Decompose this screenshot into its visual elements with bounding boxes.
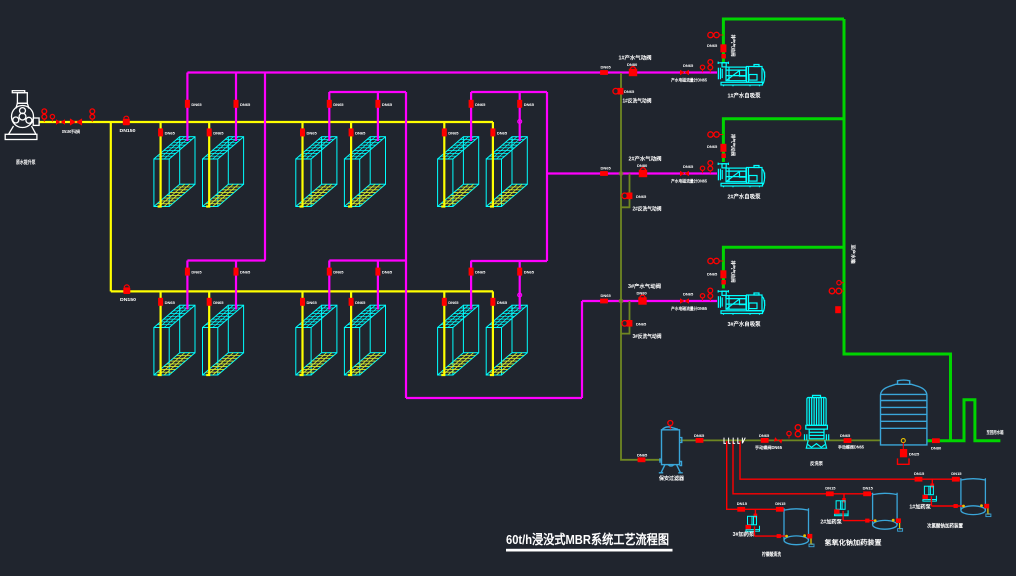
svg-text:产水电磁流量计DN65: 产水电磁流量计DN65 <box>671 77 708 84</box>
svg-text:DN65: DN65 <box>707 144 718 149</box>
valve on row1 yellow main <box>123 119 130 126</box>
membrane module M2 <box>203 137 244 207</box>
wire: magenta drop module 6 row2 <box>519 261 521 310</box>
valve on yellow drop 1 row2 <box>158 298 163 306</box>
wire: magenta header H2 group2 <box>329 91 406 93</box>
valve on green main <box>835 306 841 313</box>
membrane module M3 <box>296 137 337 207</box>
membrane module M11 <box>438 305 479 375</box>
backwash valve 3#反洗气动阀 <box>622 320 633 327</box>
wire: red dosing line to system3 <box>727 441 784 509</box>
svg-text:DN65: DN65 <box>191 102 202 107</box>
dosing system1 <box>922 478 991 516</box>
svg-text:DN65: DN65 <box>355 300 366 305</box>
valve on magenta drop 2 row2 <box>234 268 239 276</box>
wire: magenta pump2 suction line <box>547 172 717 174</box>
wire: yellow drop module 5 row2 <box>441 291 444 375</box>
wire: green tank outlet with seal loop <box>927 400 1000 441</box>
svg-text:DN15: DN15 <box>863 486 874 491</box>
svg-text:DN65: DN65 <box>191 270 202 275</box>
membrane module M5 <box>438 137 479 207</box>
valve on green riser pump1 <box>720 44 726 52</box>
valve on magenta drop 6 row2 <box>517 268 522 276</box>
gauge before pump1 <box>700 65 704 72</box>
valve on yellow drop 3 row1 <box>300 128 305 136</box>
svg-text:DN65: DN65 <box>636 322 647 327</box>
svg-text:DN65: DN65 <box>759 433 770 438</box>
wire: magenta drop module 3 row2 <box>328 261 330 310</box>
node: olive junction pump2 <box>619 172 623 176</box>
svg-text:DN65: DN65 <box>165 300 176 305</box>
svg-text:DN65: DN65 <box>448 300 459 305</box>
svg-text:DN65: DN65 <box>213 300 224 305</box>
gauge at pump outlet <box>50 114 54 121</box>
node: magenta hop module6 row1 <box>518 120 522 124</box>
butterfly valve pump1 line <box>600 70 608 75</box>
svg-text:DN65: DN65 <box>683 164 694 169</box>
wire: magenta drop module 2 row2 <box>235 261 237 310</box>
svg-text:DN65: DN65 <box>307 300 318 305</box>
main valve DN150 <box>70 118 82 125</box>
svg-text:排气气动阀: 排气气动阀 <box>730 134 737 157</box>
valve on dosing line <box>776 507 784 512</box>
valve on magenta drop 1 row2 <box>185 268 190 276</box>
svg-text:DN15: DN15 <box>825 486 836 491</box>
wire: magenta drop module 6 row1 <box>519 92 521 141</box>
gauge pair x92 <box>90 109 95 122</box>
svg-text:2#产水气动阀: 2#产水气动阀 <box>629 156 662 163</box>
wire: red dosing line to system2 <box>733 441 873 494</box>
valve on magenta drop 5 row1 <box>469 100 474 108</box>
gauge pair before pump1 <box>708 60 713 73</box>
svg-text:1#加药泵: 1#加药泵 <box>909 504 932 511</box>
svg-text:手动蝶阀DN65: 手动蝶阀DN65 <box>755 444 783 451</box>
wire: magenta pump3 suction line <box>582 300 717 302</box>
tank drain fitting <box>901 439 905 443</box>
svg-text:DN15: DN15 <box>737 501 748 506</box>
wire: magenta drop module 4 row2 <box>377 261 379 310</box>
gauge pair at pump outlet <box>42 109 47 122</box>
wire: yellow drop module 2 row1 <box>206 122 209 207</box>
svg-text:DN65: DN65 <box>707 272 718 277</box>
wire: yellow drop module 4 row2 <box>348 291 351 375</box>
valve on magenta drop 4 row1 <box>375 100 380 108</box>
valve on magenta drop 3 row2 <box>327 268 332 276</box>
node: olive junction pump3 <box>619 299 623 303</box>
valve on yellow drop 5 row1 <box>442 128 447 136</box>
wire: magenta drop module 2 row1 <box>235 73 237 142</box>
valve on magenta drop 4 row2 <box>375 268 380 276</box>
butterfly valve pump3 line <box>600 299 608 304</box>
pump 2#产水自吸泵 <box>718 163 764 188</box>
membrane module M4 <box>344 137 385 207</box>
valve on dosing line <box>826 491 834 496</box>
svg-text:DN65: DN65 <box>601 64 612 69</box>
wire: yellow air main row2 <box>111 290 493 292</box>
svg-text:DN65: DN65 <box>240 270 251 275</box>
svg-text:手动蝶阀DN65: 手动蝶阀DN65 <box>838 444 865 451</box>
svg-text:反洗泵: 反洗泵 <box>810 460 823 467</box>
valve after backwash pump <box>844 438 852 443</box>
gauge pair before backwash pump <box>795 425 801 437</box>
wire: magenta vertical x547 <box>546 92 548 261</box>
gauge before pump2 <box>700 166 704 173</box>
svg-text:次氯酸钠加药装置: 次氯酸钠加药装置 <box>927 523 963 530</box>
svg-text:DN65: DN65 <box>382 102 393 107</box>
svg-text:DN65: DN65 <box>683 63 694 68</box>
svg-text:DN65: DN65 <box>382 270 393 275</box>
wire: yellow air main row1 <box>39 121 493 123</box>
wire: green pump2 discharge <box>723 119 844 162</box>
svg-text:1#产水气动阀: 1#产水气动阀 <box>619 55 652 62</box>
raw water lift pump <box>5 91 39 140</box>
wire: magenta permeate header H1 to pump1 <box>187 71 717 73</box>
svg-text:排气气动阀: 排气气动阀 <box>730 35 737 58</box>
gauge pair on green riser pump3 <box>708 258 719 263</box>
membrane module M9 <box>296 305 337 375</box>
svg-text:DN65: DN65 <box>524 270 535 275</box>
backwash valve 1#反洗气动阀 <box>613 88 624 95</box>
membrane module M6 <box>486 137 527 207</box>
wire: magenta drop module 5 row2 <box>470 261 472 310</box>
wire: yellow drop module 6 row2 <box>490 291 493 375</box>
valve on magenta drop 2 row1 <box>234 100 239 108</box>
wire: yellow riser to row2 <box>110 122 112 291</box>
wire: magenta drop module 3 row1 <box>328 92 330 141</box>
pump 1#产水自吸泵 <box>718 62 764 87</box>
svg-text:氢氧化钠加药装置: 氢氧化钠加药装置 <box>825 538 883 547</box>
wire: magenta vertical x582 to pump3 line <box>581 301 583 398</box>
dosing system2 <box>834 493 903 531</box>
filter vent valve <box>668 421 673 426</box>
valve on yellow drop 4 row1 <box>349 128 354 136</box>
valve on row2 yellow header <box>123 287 130 294</box>
pump 3#产水自吸泵 <box>718 290 764 315</box>
svg-text:DN150: DN150 <box>120 297 137 302</box>
check valve <box>774 437 783 443</box>
wire: magenta vertical x265 <box>264 73 266 261</box>
svg-text:DN65: DN65 <box>636 194 647 199</box>
gauge before pump3 <box>700 294 704 301</box>
wire: magenta drop module 5 row1 <box>470 92 472 141</box>
tank drain funnel <box>898 458 910 464</box>
node: magenta hop module6 row2 <box>518 293 522 297</box>
svg-text:DN65: DN65 <box>240 102 251 107</box>
svg-text:DN25: DN25 <box>909 451 920 456</box>
security filter vessel 保安过滤器 <box>659 427 683 473</box>
svg-text:保安过滤器: 保安过滤器 <box>658 475 685 482</box>
valve on tank outlet right <box>932 438 940 443</box>
flow meter pump1 <box>680 70 689 75</box>
product water tank <box>881 380 927 445</box>
wire: magenta row2 header group1 <box>187 259 265 261</box>
svg-text:DN65: DN65 <box>840 433 851 438</box>
valve on dosing line <box>952 477 960 482</box>
svg-text:2#反洗气动阀: 2#反洗气动阀 <box>633 206 662 213</box>
svg-text:DN150: DN150 <box>120 128 137 133</box>
svg-text:DN65: DN65 <box>213 131 224 136</box>
valve on yellow drop 6 row1 <box>490 128 495 136</box>
wire: green pump1 discharge loop <box>723 19 844 63</box>
svg-text:DN65: DN65 <box>694 433 705 438</box>
svg-text:2#加药泵: 2#加药泵 <box>820 518 843 525</box>
svg-text:DN65: DN65 <box>333 270 344 275</box>
wire: magenta bottom header y398 <box>406 397 582 399</box>
backwash valve 2#反洗气动阀 <box>622 193 633 200</box>
gauge pair on green main <box>829 288 841 294</box>
wire: magenta drop module 1 row2 <box>186 261 188 310</box>
wire: olive backwash branch pump3 <box>621 301 630 334</box>
membrane module M12 <box>486 305 527 375</box>
valve on magenta drop 6 row1 <box>517 100 522 108</box>
svg-text:DN80: DN80 <box>627 62 638 67</box>
wire: yellow drop module 5 row1 <box>441 122 444 207</box>
small valve <box>56 119 65 124</box>
svg-text:原水提升泵: 原水提升泵 <box>16 158 36 166</box>
svg-text:DN65: DN65 <box>497 300 508 305</box>
wire: olive backwash branch pump2 <box>621 174 630 208</box>
svg-text:DN65: DN65 <box>707 43 718 48</box>
wire: yellow drop module 1 row1 <box>158 122 161 207</box>
valve on magenta drop 5 row2 <box>469 268 474 276</box>
gauge on green main <box>837 281 841 285</box>
valve on magenta drop 1 row1 <box>185 100 190 108</box>
tank drain valve <box>900 449 907 457</box>
wire: magenta drop module 4 row1 <box>377 92 379 141</box>
valve on green riser pump3 <box>720 270 726 278</box>
membrane module M10 <box>344 305 385 375</box>
svg-text:DN65: DN65 <box>165 131 176 136</box>
wire: yellow drop module 3 row1 <box>300 122 303 207</box>
dosing injection manifold <box>724 438 745 444</box>
svg-text:产水电磁流量计DN65: 产水电磁流量计DN65 <box>671 178 708 185</box>
backwash pump 反洗泵 <box>805 395 829 448</box>
valve on yellow drop 6 row2 <box>490 298 495 306</box>
valve on yellow drop 3 row2 <box>300 298 305 306</box>
gauge pair on green riser pump1 <box>708 32 719 37</box>
svg-text:DN80: DN80 <box>931 445 942 450</box>
valve on dosing line <box>863 491 871 496</box>
dosing system3 <box>746 508 815 546</box>
svg-text:产水电磁流量计DN65: 产水电磁流量计DN65 <box>671 305 708 312</box>
svg-text:3#反洗气动阀: 3#反洗气动阀 <box>633 333 662 340</box>
valve on filter outlet <box>696 438 704 443</box>
membrane module M7 <box>154 305 195 375</box>
wire: olive backwash bottom line filter to tank <box>680 439 881 441</box>
svg-text:DN65: DN65 <box>475 102 486 107</box>
valve on dosing line <box>915 477 923 482</box>
wire: yellow drop module 1 row2 <box>158 291 161 375</box>
wire: yellow drop module 2 row2 <box>206 291 209 375</box>
svg-text:DN15: DN15 <box>775 501 786 506</box>
wire: yellow drop module 3 row2 <box>300 291 303 375</box>
valve on yellow drop 4 row2 <box>349 298 354 306</box>
valve on yellow drop 2 row2 <box>207 298 212 306</box>
butterfly valve pump2 line <box>600 171 608 176</box>
wire: magenta row2 header group3 <box>471 260 547 262</box>
wire: green product main down to tank <box>844 19 951 441</box>
svg-text:至产水箱: 至产水箱 <box>850 245 857 264</box>
svg-text:DN15: DN15 <box>951 471 962 476</box>
flow meter pump2 <box>680 171 689 176</box>
svg-text:DN15: DN15 <box>914 471 925 476</box>
valve on yellow drop 2 row1 <box>207 128 212 136</box>
svg-text:2#产水自吸泵: 2#产水自吸泵 <box>728 193 761 201</box>
wire: green pump3 discharge <box>723 247 844 288</box>
svg-text:DN65: DN65 <box>497 131 508 136</box>
wire: magenta drop module 1 row1 <box>186 73 188 142</box>
gauge pair before pump3 <box>708 288 713 301</box>
svg-text:DN65: DN65 <box>637 452 648 457</box>
valve on magenta drop 3 row1 <box>327 100 332 108</box>
svg-text:1#反洗气动阀: 1#反洗气动阀 <box>623 98 652 105</box>
pneumatic valve 3#产水气动阀 <box>638 295 646 305</box>
svg-text:DN65: DN65 <box>601 165 612 170</box>
svg-text:DN65: DN65 <box>524 102 535 107</box>
svg-text:排气气动阀: 排气气动阀 <box>730 261 737 284</box>
wire: yellow drop module 4 row1 <box>348 122 351 207</box>
valve after manifold <box>761 438 769 443</box>
gauge before backwash pump <box>787 431 791 438</box>
valve on dosing line <box>737 507 745 512</box>
svg-text:3#加药泵: 3#加药泵 <box>733 531 756 538</box>
wire: magenta vertical x406 <box>405 92 407 398</box>
flow meter pump3 <box>680 298 689 303</box>
wire: olive backwash main vertical <box>621 73 662 460</box>
gauge pair before pump2 <box>708 161 713 174</box>
svg-text:DN65: DN65 <box>475 270 486 275</box>
wire: magenta header H3 group3 <box>471 91 547 93</box>
pneumatic valve 2#产水气动阀 <box>639 168 647 178</box>
wire: yellow drop module 6 row1 <box>490 122 493 207</box>
valve on green riser pump2 <box>720 144 726 152</box>
wire: magenta row2 header group2 <box>329 259 406 261</box>
membrane module M1 <box>154 137 195 207</box>
wire: red dosing line to system1 <box>740 441 961 479</box>
svg-text:DN65: DN65 <box>307 131 318 136</box>
svg-text:1#产水自吸泵: 1#产水自吸泵 <box>728 92 761 100</box>
pneumatic valve 1#产水气动阀 <box>629 67 637 77</box>
svg-text:DN65: DN65 <box>333 102 344 107</box>
valve on yellow drop 5 row2 <box>442 298 447 306</box>
title underline <box>506 549 673 552</box>
svg-text:柠檬酸清洗: 柠檬酸清洗 <box>762 551 781 558</box>
svg-text:DN80: DN80 <box>637 163 648 168</box>
svg-text:DN80: DN80 <box>637 291 648 296</box>
svg-text:3#产水自吸泵: 3#产水自吸泵 <box>728 320 761 328</box>
svg-text:DN65: DN65 <box>683 292 694 297</box>
valve on yellow drop 1 row1 <box>158 128 163 136</box>
gauge pair on green riser pump2 <box>708 132 719 137</box>
svg-text:DN65: DN65 <box>601 293 612 298</box>
valve on filter inlet <box>638 457 646 462</box>
membrane module M8 <box>203 305 244 375</box>
svg-text:DN150手动阀: DN150手动阀 <box>62 128 80 135</box>
svg-text:DN65: DN65 <box>624 89 635 94</box>
svg-text:DN65: DN65 <box>448 131 459 136</box>
svg-text:3#产水气动阀: 3#产水气动阀 <box>628 283 661 290</box>
svg-text:60t/h浸没式MBR系统工艺流程图: 60t/h浸没式MBR系统工艺流程图 <box>506 532 669 547</box>
svg-text:至回用水箱: 至回用水箱 <box>987 429 1004 436</box>
svg-text:DN65: DN65 <box>355 131 366 136</box>
